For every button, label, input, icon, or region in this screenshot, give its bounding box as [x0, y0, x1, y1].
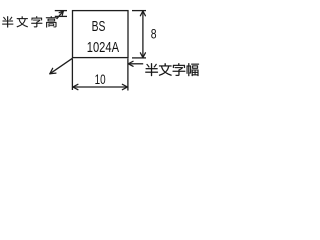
dim8 line	[142, 11, 144, 57]
width leader line	[128, 63, 143, 65]
label hanmojihaba (half char width)	[145, 63, 157, 76]
svg-text:8: 8	[151, 26, 157, 41]
half-height leader arrow line	[57, 11, 64, 19]
frame box	[73, 11, 129, 58]
svg-text:BS: BS	[92, 19, 106, 35]
arrowhead down (dim8 bottom)	[143, 53, 146, 58]
arrowhead down-left (corner diagonal)	[50, 72, 56, 75]
arrowhead left (dim10 left)	[73, 87, 78, 90]
arrowhead up (dim8 top)	[140, 11, 143, 16]
arrowhead left (width leader)	[128, 64, 133, 67]
arrowhead right (dim10 right)	[122, 84, 127, 87]
dim10 line	[73, 86, 128, 88]
svg-text:1024A: 1024A	[87, 40, 119, 56]
half-height top tick	[55, 10, 67, 12]
label hanmojidaka (half char height)	[2, 16, 13, 27]
dim8 bottom tick	[132, 57, 146, 59]
dim10 left extension	[71, 58, 73, 90]
corner diagonal arrow line	[50, 58, 73, 74]
half-height bottom tick	[55, 15, 67, 17]
dim8 top tick	[132, 10, 146, 12]
arrowhead up-right (half-height leader)	[59, 11, 63, 13]
svg-text:10: 10	[95, 72, 106, 87]
dim10 right extension	[127, 58, 129, 90]
